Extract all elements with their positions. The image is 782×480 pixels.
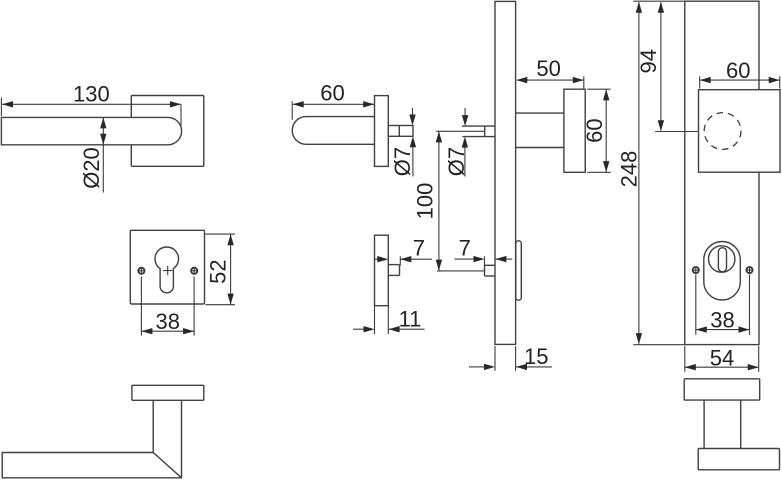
dimension 100: down arrow [436, 260, 442, 271]
svg-text:Ø7: Ø7 [390, 147, 415, 176]
svg-text:38: 38 [156, 309, 180, 334]
security plate: dashed handle hole circle [704, 113, 741, 150]
dimension 50: dimension line [517, 79, 583, 81]
dimension 7 second: right arrow and line [495, 258, 512, 260]
lever side view bottom: bend edge [153, 453, 181, 478]
knob side view bottom: neck [703, 400, 705, 448]
backplate side view: plate [495, 1, 516, 344]
key escutcheon side view: cylinder stub [388, 264, 399, 266]
dimension 15: left arrow and line [469, 366, 484, 368]
svg-text:100: 100 [412, 183, 437, 220]
dimension 38 right: extension lines [695, 275, 697, 335]
security plate: left screw [693, 267, 699, 273]
dimension 60 middle: extension line [291, 101, 293, 119]
dimension 38 left: left arrow [141, 328, 152, 334]
key escutcheon side view: plate [375, 235, 389, 306]
dimension Ø20: down arrow [100, 134, 106, 145]
lever side view middle: spindle [388, 126, 413, 137]
dimension Ø7 right: lower leader and arrow [464, 142, 466, 176]
svg-text:248: 248 [616, 151, 641, 188]
svg-text:60: 60 [726, 58, 750, 83]
svg-text:50: 50 [536, 56, 560, 81]
dimension 60 right: extension lines [699, 76, 701, 88]
dimension 7 second: left arrow and line [455, 258, 474, 260]
dimension 38 left: dimension line [141, 330, 194, 332]
knob side view bottom: rose bar [684, 379, 760, 400]
svg-text:7: 7 [459, 236, 471, 261]
dimension 15: extension lines [494, 346, 496, 371]
dimension 54: extension lines [684, 346, 686, 372]
dimension 7 first: left arrow and line [375, 258, 378, 260]
dimension 130: dimension line [2, 103, 181, 105]
dimension 248: dimension line [638, 2, 640, 343]
security plate: key slot [718, 248, 726, 272]
handle axis extension line [436, 130, 485, 132]
dimension 7 second: extension line [484, 256, 486, 265]
dimension 50: left arrow [516, 77, 527, 83]
dimension Ø20: dimension line [102, 117, 104, 144]
key escutcheon front view: square plate [130, 230, 204, 304]
dimension 94: extension line at handle axis [655, 131, 698, 133]
dimension 54: dimension line [685, 366, 759, 368]
svg-text:130: 130 [73, 82, 110, 107]
dimension 54: right arrow [748, 364, 759, 370]
svg-text:52: 52 [206, 259, 231, 283]
backplate side view: cylinder protrusion [485, 264, 496, 266]
dimension 130: extension lines [0, 98, 2, 117]
dimension 52: extension lines [205, 233, 235, 235]
lever side view bottom: neck and grip outline [2, 400, 181, 478]
dimension 52: down arrow [227, 294, 233, 305]
knob side view middle: neck [516, 112, 564, 114]
svg-text:94: 94 [636, 49, 661, 73]
lever side view middle: handle bar [292, 117, 374, 145]
dimension 60 right: right arrow [769, 77, 780, 83]
dimension Ø7 right: upper leader and arrow [464, 108, 466, 120]
svg-text:38: 38 [710, 307, 734, 332]
dimension 248: down arrow [636, 333, 642, 344]
dimension 50: extension line [583, 76, 585, 89]
key escutcheon: euro profile keyhole [155, 247, 179, 293]
svg-text:15: 15 [524, 344, 548, 369]
key escutcheon: cylinder axis cross [163, 270, 172, 272]
dimension 52: dimension line [230, 234, 232, 304]
knob side view middle: rose [564, 89, 585, 172]
dimension 60 middle: dimension line [293, 103, 374, 105]
dimension 60 right: left arrow [700, 77, 711, 83]
dimension 100: dimension line [438, 132, 440, 271]
dimension 100: up arrow [436, 131, 442, 142]
svg-text:Ø20: Ø20 [79, 147, 104, 189]
lever handle front view: square rose [131, 96, 204, 167]
dimension 60 middle: left arrow [293, 101, 304, 107]
key escutcheon: right screw [191, 268, 197, 274]
security plate: square handle rose [699, 90, 781, 173]
dimension 60 vertical: down arrow [603, 161, 609, 172]
dimension 130: right arrow [170, 101, 181, 107]
dimension 50: right arrow [573, 77, 584, 83]
dimension 94: up arrow [658, 2, 664, 13]
dimension 60 vertical: up arrow [603, 89, 609, 100]
dimension 248: extension lines [633, 0, 685, 2]
dimension 54: left arrow [685, 364, 696, 370]
dimension 38 right: right arrow [739, 326, 750, 332]
dimension 38 left: extension lines [140, 277, 142, 336]
dimension 60 vertical: dimension line [605, 90, 607, 173]
knob side view bottom: knob head [698, 449, 779, 470]
dimension Ø20: up arrow [100, 117, 106, 128]
dimension 94: dimension line [660, 2, 662, 131]
dimension 38 right: left arrow [696, 326, 707, 332]
backplate side view: spindle protrusion [462, 125, 495, 127]
dimension Ø7 left: upper leader and arrow [412, 108, 414, 119]
dimension 15: right arrow and line [516, 366, 552, 368]
cylinder axis extension line [437, 270, 484, 272]
lever handle front view: handle bar [1, 117, 181, 144]
dimension 130: left arrow [2, 101, 13, 107]
security plate front view: plate [685, 1, 759, 344]
dimension 60 middle: right arrow [363, 101, 374, 107]
svg-text:7: 7 [413, 236, 425, 261]
backplate side view: cylinder cover [516, 241, 522, 300]
dimension 60 right: dimension line [700, 79, 779, 81]
svg-text:11: 11 [399, 307, 422, 332]
dimension 7 first: right arrow and line [400, 258, 432, 260]
dimension 60 vertical: extension lines [587, 88, 610, 90]
dimension 11: right arrow and line [389, 328, 425, 330]
dimension Ø7 left: lower leader and arrow [412, 142, 414, 177]
key escutcheon: left screw [138, 268, 144, 274]
dimension 38 right: dimension line [696, 329, 750, 331]
svg-text:Ø7: Ø7 [444, 147, 469, 176]
svg-text:60: 60 [320, 80, 344, 105]
security plate: right screw [746, 267, 752, 273]
dimension 11: extension lines [374, 306, 376, 334]
svg-text:60: 60 [582, 118, 607, 142]
security plate: oval cylinder cover [704, 242, 741, 301]
dimension 248: up arrow [636, 2, 642, 13]
dimension 94: down arrow [658, 120, 664, 131]
security plate: cylinder face circle [709, 246, 735, 272]
dimension 52: up arrow [227, 234, 233, 245]
lever side view middle: rose [375, 96, 389, 167]
dimension 38 left: right arrow [183, 328, 194, 334]
lever side view bottom: rose bar [132, 385, 204, 400]
svg-text:54: 54 [710, 345, 734, 370]
dimension 7 first: extension line [399, 256, 401, 265]
dimension 11: left arrow and line [353, 328, 364, 330]
